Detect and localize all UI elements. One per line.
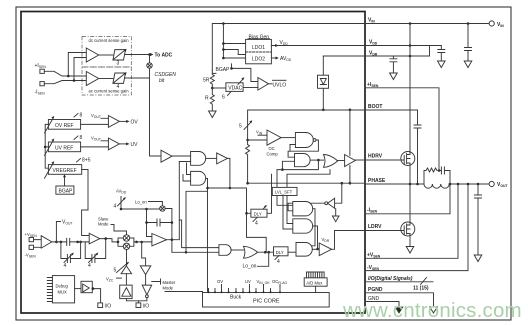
svg-text:CSDGEN: CSDGEN (155, 72, 177, 78)
wire VOUT rail (449, 183, 489, 185)
capacitor Csen (439, 167, 450, 184)
inverter master top (points down) (140, 266, 151, 275)
node VIN-cap junction (467, 22, 470, 25)
ground GND (395, 307, 403, 313)
svg-text:BGAP: BGAP (59, 189, 74, 195)
pad -VSEN (29, 245, 33, 249)
pad I/O left (98, 303, 103, 308)
wire +ISEN to sense RC midpoint (365, 88, 439, 171)
box DLY1 (251, 209, 267, 217)
svg-text:UVLO: UVLO (273, 82, 287, 88)
svg-text:4: 4 (117, 84, 120, 90)
capacitor VIN bypass (465, 24, 472, 62)
op-amp A1 dc sense (86, 48, 98, 62)
wire VIN rail (365, 23, 489, 25)
node VIN-FET junction (409, 22, 412, 25)
svg-text:BGAP: BGAP (216, 67, 231, 73)
svg-text:Bias Gen: Bias Gen (249, 35, 270, 41)
svg-text:I/O: I/O (105, 304, 112, 310)
bus slash 8 UV (74, 136, 78, 140)
stubs debug mux (47, 278, 52, 302)
wire BOOT external (365, 110, 418, 125)
buffer current-sense (161, 150, 172, 162)
svg-text:LDO1: LDO1 (252, 45, 265, 51)
svg-text:4: 4 (88, 263, 91, 269)
wire ramp rail (121, 208, 160, 210)
wire BGAP to VREGREF (64, 177, 66, 187)
network var cap 2 (85, 239, 106, 263)
capacitor output (475, 184, 482, 255)
svg-text:HDRV: HDRV (368, 154, 383, 160)
buffer P2 (206, 157, 217, 159)
box BGAP lower (56, 186, 74, 194)
wire DLY node branch (247, 213, 267, 252)
svg-text:3: 3 (117, 61, 120, 67)
tap VOUT (56, 222, 60, 242)
svg-text:Buck: Buck (230, 295, 242, 301)
wire to PWM comp (134, 241, 152, 243)
wire VDR internal (323, 55, 365, 57)
wire VDD-VDR tie (429, 46, 431, 57)
bus slash 6 (228, 92, 232, 96)
terminal VOUT (489, 181, 494, 186)
wire LDRV gate (365, 230, 402, 232)
box Bias Gen (246, 39, 272, 63)
switch slave pair (111, 225, 134, 247)
gate AND-B (296, 243, 312, 257)
svg-text:4: 4 (255, 221, 258, 227)
gate AND-L2 (293, 219, 313, 233)
wire HDRV out (355, 159, 365, 161)
gain block 4 (113, 73, 126, 83)
bus slash (421, 278, 427, 285)
svg-text:4: 4 (277, 259, 280, 265)
box UV REF (48, 142, 80, 152)
trim arrow OV REF (45, 118, 54, 134)
wire diff out (52, 241, 67, 243)
capacitor VDD bypass (438, 46, 445, 62)
svg-text:BOOT: BOOT (368, 104, 382, 110)
svg-text:Lo_on: Lo_on (135, 200, 147, 205)
wire BOOT internal (248, 110, 365, 119)
ground VIN cap (464, 61, 472, 68)
pad -ISEN input (40, 82, 44, 86)
svg-text:LDRV: LDRV (368, 224, 382, 230)
wire CSDGEN vertical (150, 55, 162, 157)
wire VDR (365, 55, 430, 57)
inverter master bottom (points down, bubble) (142, 285, 152, 295)
svg-text:Comp: Comp (267, 152, 279, 157)
gate NAND2 (282, 161, 294, 169)
gate OR-B (231, 249, 243, 251)
box LVL_SFT (272, 187, 297, 195)
wire slave switch to ZC comparator (126, 250, 128, 266)
wire DLY2 out (288, 251, 296, 253)
wire +VSEN (365, 184, 458, 258)
wire AVDD from LDO2 (271, 57, 275, 59)
transistor Q1 high-side NMOS (401, 151, 415, 184)
svg-text:5R: 5R (203, 78, 210, 84)
wire EA2 out (100, 239, 118, 242)
ground divider (209, 111, 217, 118)
bus slash 8 OV (74, 114, 78, 118)
IC boundary box (21, 12, 365, 314)
svg-text:UV: UV (131, 142, 139, 148)
wire VREGREF to error amp ref (82, 170, 90, 236)
svg-text:bit: bit (159, 78, 165, 84)
svg-text:8: 8 (80, 113, 83, 119)
gate AND-P1 (191, 152, 206, 166)
svg-text:VREGREF: VREGREF (53, 168, 77, 174)
wire VDD (365, 45, 441, 47)
node OC tap (246, 139, 249, 142)
wire DLY1 out (267, 174, 272, 213)
switch Lo_on (160, 206, 165, 211)
svg-text:Debug: Debug (56, 284, 69, 289)
svg-text:DLY: DLY (254, 212, 262, 217)
comparator PWM (152, 234, 167, 246)
wire A2 path to CSDGEN switch (125, 77, 150, 79)
wire to ADC (125, 54, 151, 56)
wire P2 out down (227, 158, 230, 188)
svg-text:LVL_SFT: LVL_SFT (275, 190, 293, 195)
capacitor bootstrap (414, 125, 421, 184)
box VREGREF (48, 165, 81, 175)
pad I/O mid (136, 303, 141, 308)
wire A2 out (99, 78, 113, 80)
svg-text:Master: Master (163, 280, 176, 285)
wire -ISEN (365, 184, 450, 214)
svg-text:DLY: DLY (276, 250, 284, 255)
svg-text:LDO2: LDO2 (252, 56, 265, 62)
wire BGAP net (212, 64, 258, 82)
svg-text:VDAC: VDAC (228, 86, 242, 92)
capacitor series comp (67, 238, 90, 245)
wire VIN internal rail (212, 24, 365, 71)
wire L2 out down (313, 226, 318, 249)
wire sense network riser left (424, 171, 426, 185)
wire LDO input bus (223, 24, 245, 59)
ground VDD cap (438, 61, 446, 68)
box A/D Mux (304, 278, 327, 286)
wire LDRV out (332, 231, 365, 250)
svg-text:OV REF: OV REF (55, 123, 74, 129)
svg-text:PGND: PGND (368, 287, 383, 293)
svg-text:To ADC: To ADC (155, 53, 173, 59)
wire A/D mux to PIC (315, 286, 317, 292)
wire driver boot supply (349, 110, 351, 156)
arrow open down (335, 209, 337, 217)
op-amp A2 ac sense (86, 72, 98, 86)
svg-text:UV REF: UV REF (55, 145, 73, 151)
buffer boxed up (120, 285, 132, 299)
wire PWM out (167, 162, 180, 240)
bus slash 8+5 (77, 159, 81, 163)
comparator OC (267, 130, 281, 145)
svg-text:OV: OV (217, 279, 223, 284)
node divider tap (211, 87, 214, 90)
wire PGND (365, 293, 434, 307)
wire VDD from LDO1 (271, 45, 365, 47)
svg-text:A/D Mux: A/D Mux (306, 280, 323, 285)
terminal VIN (489, 21, 494, 26)
wire L1 out down (296, 209, 315, 246)
svg-text:PIC CORE: PIC CORE (253, 299, 280, 305)
svg-text:I/O(Digital Signals): I/O(Digital Signals) (368, 276, 413, 282)
box PIC CORE (203, 293, 330, 308)
svg-text:ac current sense gain: ac current sense gain (89, 89, 130, 94)
trim arrow OC divider (244, 119, 252, 145)
network var cap 1 (61, 242, 81, 263)
wire -ISEN cross route (44, 58, 86, 84)
svg-text:dc current sense gain: dc current sense gain (89, 38, 130, 43)
svg-text:5: 5 (239, 124, 242, 130)
wire inverter out (288, 203, 325, 211)
svg-text:8+5: 8+5 (82, 158, 91, 164)
wire VIN feed down to high-side FET (409, 24, 411, 152)
wire NAND1 weave (288, 140, 318, 157)
comb A/D mux (307, 272, 325, 278)
gain block 3 (113, 50, 126, 60)
wire I/O bus (365, 281, 433, 283)
gate OR1 (324, 155, 338, 168)
wire ZC down (125, 274, 127, 285)
wire PWM row into AND-A (172, 220, 219, 252)
transistor Q2 low-side NMOS (401, 184, 415, 247)
svg-text:Lo_on: Lo_on (243, 264, 257, 270)
box DLY2 (274, 247, 289, 256)
wire driver to phase (349, 166, 351, 184)
svg-text:6: 6 (222, 95, 225, 101)
svg-text:OV: OV (131, 120, 139, 126)
svg-text:4: 4 (114, 204, 117, 210)
box Debug MUX (52, 276, 74, 303)
wire OR1 out (337, 160, 345, 162)
box VDAC (212, 87, 226, 89)
trim arrow VREGREF (45, 163, 54, 179)
comparator UV (108, 138, 119, 150)
wire ramp cap branch (147, 209, 172, 240)
op-amp EA2 (89, 233, 100, 244)
resistor Rsen (426, 168, 437, 172)
comparator UVLO (258, 78, 269, 91)
wire master to pic (165, 291, 203, 293)
box dc current sense gain (dash-dot) (82, 37, 131, 96)
wire -VSEN (365, 184, 468, 271)
wire PHASE rail (365, 183, 424, 185)
gate AND-L1 (293, 202, 313, 216)
svg-text:8: 8 (80, 135, 83, 141)
trim arrow UV REF (45, 140, 54, 156)
ground VDR cap (390, 73, 398, 80)
svg-text:UV: UV (245, 279, 251, 284)
svg-text:MUX: MUX (58, 290, 68, 295)
inductor L1 (424, 184, 449, 188)
resistor OC divider (246, 145, 250, 184)
wire ramp down to AND-A row (171, 240, 173, 253)
ground output cap (474, 255, 482, 262)
svg-text:www.cntronics.com: www.cntronics.com (342, 299, 522, 322)
wire HDRV gate (365, 159, 402, 161)
svg-text:OC: OC (269, 146, 275, 151)
trim arrow VDAC (238, 79, 244, 85)
wire error row to master column (142, 242, 146, 266)
wire A1 out (99, 54, 113, 56)
ground PGND (430, 307, 438, 313)
svg-text:4: 4 (64, 263, 67, 269)
comparator OV (108, 116, 119, 128)
wire OR-B out (257, 251, 274, 253)
wire LVLSFT to gates (277, 196, 293, 230)
op-amp HDRV driver (345, 155, 356, 167)
svg-text:Mode: Mode (163, 286, 174, 291)
gate AND-P3 (191, 171, 206, 185)
switch CSDGEN (147, 63, 152, 68)
source var ramp (118, 197, 126, 210)
gate NAND1 (295, 133, 313, 148)
stub ticks into PIC (209, 285, 281, 293)
wire +ISEN cross route (44, 53, 86, 77)
ground Q2 source (406, 247, 414, 254)
svg-text:PHASE: PHASE (368, 178, 386, 184)
wire NAND2 out (310, 159, 323, 161)
inverter phase sense (335, 183, 342, 203)
wire P3 out routing (186, 179, 251, 292)
gate AND-A (219, 245, 231, 256)
diode D1 bootstrap (zener in box) (322, 56, 324, 110)
wire ref left bus (45, 124, 48, 168)
box OV REF (48, 120, 80, 130)
wire PHASE internal (248, 182, 365, 184)
op-amp diff (34, 240, 42, 248)
svg-text:11 (15): 11 (15) (413, 286, 429, 292)
svg-text:R: R (205, 96, 209, 102)
svg-text:Mode: Mode (98, 222, 109, 227)
wire OC out (281, 137, 295, 139)
svg-text:I/O: I/O (143, 304, 150, 310)
capacitor VDR bypass (390, 56, 397, 73)
wire GND (365, 302, 399, 308)
wire LVLSFT taps (277, 160, 330, 187)
buffer debug (boxed) (75, 288, 81, 290)
